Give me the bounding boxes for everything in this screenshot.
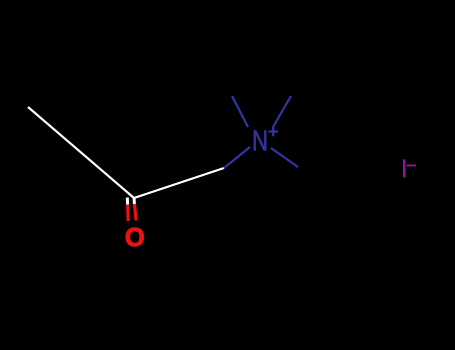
plus charge	[269, 130, 279, 132]
bond CH2 to N (nitrogen-colored half)	[224, 147, 250, 168]
bond carbonyl C to CH2	[134, 168, 224, 198]
iodide ion I	[403, 159, 406, 177]
minus charge	[407, 165, 416, 167]
svg-text:O: O	[125, 224, 145, 252]
svg-text:N: N	[252, 126, 268, 157]
bond N-CH3 upper left	[232, 96, 248, 127]
carbonyl C=O double bond red lower halves	[126, 205, 130, 222]
bond CH3CH2 chain to carbonyl C	[28, 107, 134, 198]
bond N-CH3 upper right	[273, 96, 291, 127]
bond N-CH3 lower right	[271, 148, 298, 167]
carbonyl C=O double bond white upper halves	[126, 198, 129, 205]
